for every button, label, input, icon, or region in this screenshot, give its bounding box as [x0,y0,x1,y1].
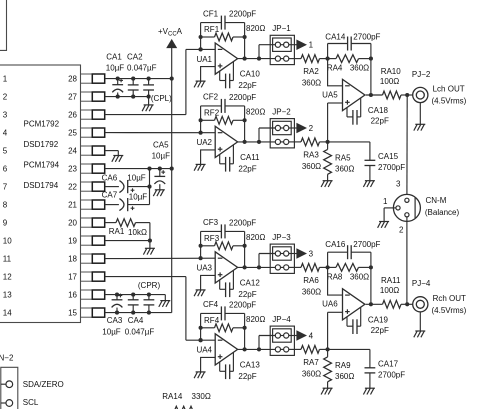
svg-text:2700pF: 2700pF [353,33,380,42]
svg-text:360Ω: 360Ω [302,79,321,88]
ground [196,289,206,291]
svg-text:18: 18 [68,255,77,264]
jumper JP-4 [270,326,294,355]
ground [415,330,425,332]
svg-text:Lch OUT: Lch OUT [433,85,465,94]
wire [281,127,284,129]
svg-text:26: 26 [68,111,77,120]
wire CN-M pin 2 to PJ-4 node [406,217,408,304]
svg-text:Rch OUT: Rch OUT [433,294,466,303]
wire pin 18 to UA3 - input [105,257,216,259]
svg-text:SDA/ZERO: SDA/ZERO [23,380,64,389]
ground [113,155,123,157]
svg-text:10µF: 10µF [102,328,121,337]
ground [155,189,165,191]
svg-text:JP−3: JP−3 [272,233,291,242]
svg-text:10µF: 10µF [106,64,125,73]
ground [196,163,206,165]
wire feedback left [200,231,202,258]
svg-text:CA13: CA13 [240,361,261,370]
capacitor CA17 2700pF to ground [328,348,370,350]
svg-text:25: 25 [68,129,77,138]
svg-text:10: 10 [3,237,12,246]
svg-text:100Ω: 100Ω [380,286,399,295]
svg-text:13: 13 [3,291,12,300]
svg-text:2200pF: 2200pF [229,301,256,310]
svg-text:22pF: 22pF [238,81,256,90]
wire jack sleeve to ground [419,103,421,125]
svg-text:RF2: RF2 [204,109,220,118]
ground [323,180,333,182]
arrow to node 4 [297,331,306,340]
wire pin 27 [105,96,149,98]
svg-text:RA7: RA7 [303,358,319,367]
svg-text:CA4: CA4 [128,316,144,325]
svg-text:CA19: CA19 [368,316,389,325]
capacitor CF4 2200pF (feedback) [201,312,222,314]
capacitor CA5 10uF to ground [159,169,161,177]
resistor RA1 10k [105,222,116,224]
wire [281,253,284,255]
pin SDA/ZERO [1,383,6,385]
svg-text:22: 22 [68,183,77,192]
svg-text:2200pF: 2200pF [229,10,256,19]
wire CN-M pin 1 to ground [384,207,396,209]
capacitor (CPR) [148,295,150,300]
svg-text:RA11: RA11 [381,276,401,285]
ground [144,104,154,106]
wire CA6/CA7 junction [149,169,151,205]
svg-text:7: 7 [3,183,8,192]
svg-text:CA1: CA1 [106,52,122,61]
svg-text:JP−4: JP−4 [272,315,291,324]
wire feedback right [244,23,246,59]
svg-text:CA15: CA15 [378,152,399,161]
svg-text:(4.5Vrms): (4.5Vrms) [432,97,467,106]
svg-text:CA2: CA2 [127,52,143,61]
resistor RA9 360&#937; to ground [327,349,329,357]
svg-text:330Ω: 330Ω [192,392,211,401]
svg-text:22pF: 22pF [238,290,256,299]
svg-text:3: 3 [309,249,314,258]
wire output [238,141,276,143]
ground [160,300,170,302]
wire UA6 + input to node [328,311,343,313]
wire jack sleeve to ground [419,312,421,331]
svg-text:2700pF: 2700pF [353,240,380,249]
svg-text:360Ω: 360Ω [302,162,321,171]
svg-text:UA3: UA3 [196,264,212,273]
svg-text:CA5: CA5 [153,140,169,149]
op-amp UA3 [215,252,237,283]
svg-text:(CPL): (CPL) [151,94,172,103]
svg-text:360Ω: 360Ω [350,64,369,73]
ground [379,221,389,223]
svg-text:100Ω: 100Ω [380,77,399,86]
wire pin 25 to UA2 - input [105,132,216,134]
svg-text:22pF: 22pF [238,164,256,173]
arrow to node 3 [297,249,306,258]
svg-text:UA1: UA1 [196,55,212,64]
svg-text:820Ω: 820Ω [246,24,265,33]
svg-text:22pF: 22pF [371,326,389,335]
svg-text:28: 28 [68,75,77,84]
connector CN-M (Balance) [393,194,420,221]
capacitor (CPL) to ground [148,79,150,85]
jack PJ-4 [413,297,428,312]
svg-text:CF4: CF4 [203,300,219,309]
resistor RA11 100&#937; [383,300,402,308]
svg-text:4: 4 [3,129,8,138]
wire output [238,348,276,350]
wire PJ-2 node to CN-M pin 3 [406,95,408,198]
svg-text:RA9: RA9 [335,361,351,370]
svg-text:10µF: 10µF [152,152,171,161]
capacitor CF3 2200pF (feedback) [201,230,222,232]
resistor RA2 360&#937; [289,58,301,60]
svg-text:RA3: RA3 [303,150,319,159]
capacitor CA2 0.047uF [132,79,134,85]
wire feedback right [244,313,246,349]
svg-text:CA6: CA6 [102,173,118,182]
svg-text:360Ω: 360Ω [302,370,321,379]
svg-text:JP−1: JP−1 [272,24,291,33]
svg-text:RF4: RF4 [204,316,220,325]
svg-text:8: 8 [3,201,8,210]
svg-text:27: 27 [68,93,77,102]
svg-text:JP−2: JP−2 [272,107,291,116]
svg-text:2: 2 [3,93,8,102]
svg-text:15: 15 [68,309,77,318]
wire + input to ground [201,150,216,165]
resistor RF3 820&#937; [201,245,215,247]
svg-text:(CPR): (CPR) [138,281,161,290]
svg-text:RA8: RA8 [327,273,343,282]
capacitor CA11 22pF [219,154,221,163]
svg-text:1: 1 [383,197,388,206]
svg-text:UA2: UA2 [196,138,212,147]
svg-text:6: 6 [3,165,8,174]
capacitor CA6 10uF [105,186,119,188]
svg-text:23: 23 [68,165,77,174]
wire pin 23 [105,168,172,170]
svg-text:RA14: RA14 [162,392,183,401]
capacitor CA18 22pF [346,108,348,117]
ground [365,180,375,182]
svg-text:1: 1 [3,75,8,84]
resistor RF2 820&#937; [201,119,215,121]
svg-text:820Ω: 820Ω [246,315,265,324]
capacitor CA14 2700pF (feedback) [327,44,329,59]
wire output [238,266,276,268]
svg-text:PCM1792: PCM1792 [24,119,60,128]
ground [323,387,333,389]
resistor RF1 820&#937; [201,36,215,38]
arrow to node 1 [297,40,306,49]
svg-text:PCM1794: PCM1794 [24,160,60,169]
wire pin 16 [105,294,166,296]
svg-text:CA11: CA11 [240,153,260,162]
capacitor CA10 22pF [219,71,221,80]
wire + input to ground [201,357,216,372]
svg-text:24: 24 [68,147,77,156]
svg-text:17: 17 [68,273,77,282]
op-amp UA1 [215,43,237,74]
wire + input to ground [201,275,216,290]
wire pin 26 to UA1 - input [105,114,186,116]
svg-text:21: 21 [68,201,77,210]
svg-text:N−2: N−2 [0,353,14,362]
svg-text:RA4: RA4 [327,64,343,73]
svg-text:22pF: 22pF [371,117,389,126]
svg-text:2700pF: 2700pF [378,163,405,172]
svg-text:CA14: CA14 [325,33,346,42]
svg-text:16: 16 [68,291,77,300]
svg-text:CA16: CA16 [325,240,346,249]
svg-text:19: 19 [68,237,77,246]
svg-text:RA6: RA6 [303,276,319,285]
op-amp UA2 [215,126,237,157]
wire pin 17 to UA4 - input [105,276,186,278]
svg-text:PJ−2: PJ−2 [412,70,431,79]
svg-text:4: 4 [309,331,314,340]
resistor RA4 360&#937; [328,58,336,60]
wire pin 15 to +VccA rail [105,312,172,314]
op-amp UA5 [343,79,365,110]
wire [281,335,284,337]
ground [196,80,206,82]
jumper JP-3 [270,244,294,273]
svg-text:CF2: CF2 [203,93,219,102]
svg-text:11: 11 [3,255,12,264]
svg-text:CA10: CA10 [240,70,261,79]
svg-text:10µF: 10µF [129,192,148,201]
svg-text:1: 1 [309,41,314,50]
resistor RA6 360&#937; [289,266,301,268]
svg-text:2200pF: 2200pF [229,93,256,102]
wire +VccA rail [171,48,173,313]
svg-text:360Ω: 360Ω [350,273,369,282]
svg-text:CA3: CA3 [107,316,123,325]
svg-text:2200pF: 2200pF [229,219,256,228]
svg-text:360Ω: 360Ω [302,288,321,297]
svg-text:22pF: 22pF [238,372,256,381]
svg-text:CA17: CA17 [378,360,399,369]
wire jumper top row [258,336,260,350]
wire feedback left [200,106,202,133]
arrow to node 2 [297,123,306,132]
svg-text:DSD1794: DSD1794 [24,181,59,190]
capacitor CA16 2700pF (feedback) [327,252,329,267]
resistor RA10 100&#937; [383,91,402,99]
connector CN-2 [1,367,18,409]
wire output [238,58,276,60]
svg-text:10kΩ: 10kΩ [128,228,147,237]
svg-text:RA1: RA1 [109,227,125,236]
wire feedback to output [370,59,372,95]
wire - input [328,267,343,295]
IC U1 PCM1792/DSD1792/PCM1794/DSD1794 [0,65,81,323]
wire - input [328,59,343,86]
wire [281,44,284,46]
adjacent box corner (top-left) [0,0,7,50]
svg-text:(4.5Vrms): (4.5Vrms) [432,306,467,315]
wire output [366,303,383,305]
wire UA5 + input to node [328,102,343,104]
svg-text:820Ω: 820Ω [246,108,265,117]
op-amp UA6 [343,289,365,320]
svg-text:0.047µF: 0.047µF [125,328,155,337]
ground [365,387,375,389]
capacitor CA3 10uF [116,295,118,300]
svg-text:(Balance): (Balance) [425,208,460,217]
svg-text:20: 20 [68,219,77,228]
svg-text:2: 2 [309,124,314,133]
svg-text:PJ−4: PJ−4 [412,279,431,288]
resistor RA8 360&#937; [328,266,336,268]
svg-text:UA4: UA4 [196,346,212,355]
ground [415,123,425,125]
wire + input to ground [201,67,216,82]
svg-text:DSD1792: DSD1792 [24,140,59,149]
svg-text:2700pF: 2700pF [378,371,405,380]
capacitor CF1 2200pF (feedback) [201,22,222,24]
svg-text:360Ω: 360Ω [335,372,354,381]
wire feedback to output [370,267,372,304]
capacitor CA7 10uF [105,204,119,206]
jumper JP-1 [270,35,294,64]
capacitor CA15 2700pF to ground [328,141,370,143]
svg-text:3: 3 [396,180,401,189]
wire feedback right [244,231,246,267]
svg-text:3: 3 [3,111,8,120]
svg-text:RA2: RA2 [303,67,319,76]
svg-text:SCL: SCL [23,398,39,407]
jumper JP-2 [270,119,294,148]
svg-text:2: 2 [399,226,404,235]
wire feedback right [244,106,246,142]
svg-text:CA7: CA7 [102,191,118,200]
wire feedback left [200,313,202,340]
svg-text:9: 9 [3,219,8,228]
svg-text:RA5: RA5 [335,154,351,163]
resistor RF4 820&#937; [201,327,215,329]
capacitor CA4 0.047uF [132,295,134,300]
svg-text:RF3: RF3 [204,234,220,243]
svg-text:0.047µF: 0.047µF [127,64,157,73]
resistor RA3 360&#937; [289,141,301,143]
capacitor CA19 22pF [346,317,348,326]
svg-text:14: 14 [3,309,12,318]
wire output [366,94,383,96]
capacitor CF2 2200pF (feedback) [201,105,222,107]
ground [196,371,206,373]
svg-text:CF3: CF3 [203,218,219,227]
svg-text:360Ω: 360Ω [335,165,354,174]
wire jumper top row [258,128,260,142]
svg-text:UA5: UA5 [322,90,338,99]
svg-text:10µF: 10µF [127,173,146,182]
svg-text:CF1: CF1 [203,9,219,18]
jack PJ-2 [413,87,428,102]
capacitor CA12 22pF [219,280,221,289]
wire pin 24 to ground [105,150,119,152]
op-amp UA4 [215,334,237,365]
svg-text:RA10: RA10 [381,67,402,76]
capacitor CA1 10uF [117,79,119,85]
svg-text:CN-M: CN-M [426,196,447,205]
wire pin 19 [105,240,150,242]
ground [145,247,155,249]
capacitor CA13 22pF [219,362,221,371]
svg-text:CA12: CA12 [240,279,261,288]
pin SCL [1,402,6,404]
svg-text:CA18: CA18 [368,106,389,115]
svg-text:12: 12 [3,273,12,282]
svg-text:UA6: UA6 [322,300,338,309]
wire feedback left [200,23,202,50]
resistor RA7 360&#937; [289,348,301,350]
wire pin 28 to +VccA rail [105,78,172,80]
wire jumper top row [258,45,260,59]
svg-text:5: 5 [3,147,8,156]
svg-text:RF1: RF1 [204,25,220,34]
wire jumper top row [258,254,260,268]
svg-text:820Ω: 820Ω [246,233,265,242]
resistor RA5 360&#937; to ground [327,142,329,150]
